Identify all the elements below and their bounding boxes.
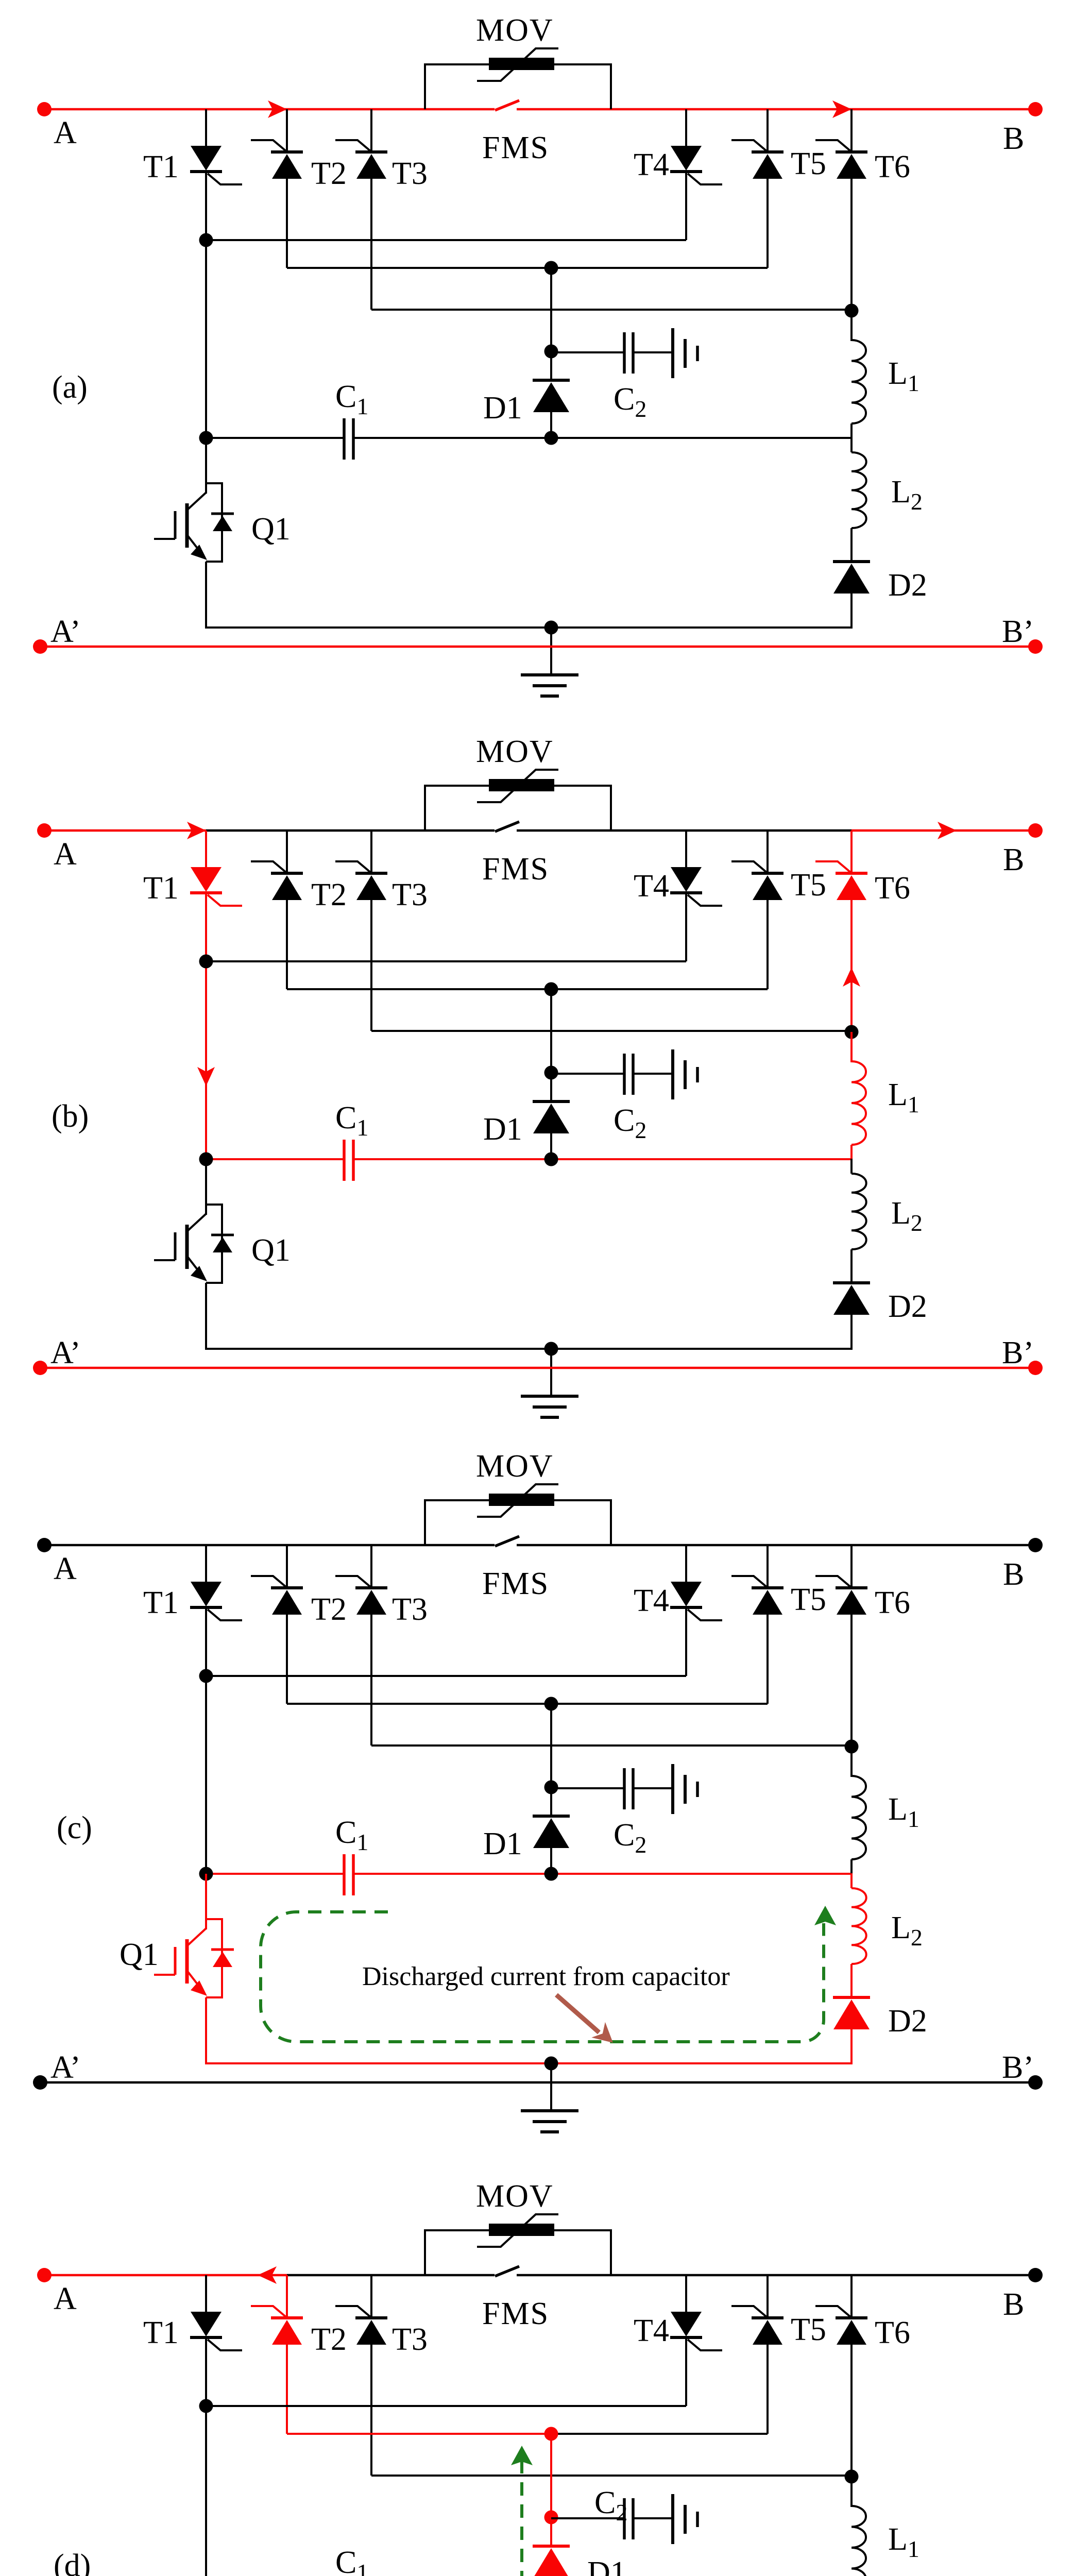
node T1-T4 junction [199,233,213,247]
svg-text:C2: C2 [614,1103,646,1143]
wire T6 top [850,109,853,152]
wire T3-T6 link [371,1744,851,1747]
node D1 anode / C1 junction [544,431,558,445]
wire L1-L2 link lower [850,1873,853,1888]
svg-text:(c): (c) [57,1810,92,1845]
svg-text:T3: T3 [392,877,428,912]
svg-text:C2: C2 [614,1818,646,1858]
panel (c) [33,1449,1043,2132]
wire C1 line left [206,437,344,439]
wire C1 line right [551,1873,851,1875]
wire T1 cathode down to C1 node [205,893,207,1159]
wire bottom inner right [551,1348,853,1350]
svg-text:B: B [1003,2287,1024,2322]
wire ground stem [550,1349,552,1396]
thyristor T2 [251,1576,303,1615]
wire L2 to D2 [850,1249,853,1283]
wire T1 anode [205,831,207,867]
thyristor T4 [670,146,722,184]
panel (b) [33,734,1043,1417]
wire T3 top [370,2275,372,2318]
thyristor T4 [670,867,722,906]
wire L1-L2 link lower [850,1159,853,1174]
regenerated current dashed path [522,2460,825,2576]
svg-text:B’: B’ [1002,2050,1034,2085]
svg-text:T5: T5 [791,1582,826,1617]
wire T3 bottom [370,900,372,1031]
svg-text:A: A [54,115,77,150]
switch FMS blade [495,822,519,832]
wire bottom bus B' right [551,1367,1035,1369]
svg-text:T1: T1 [143,149,179,184]
node center tap on T2-T5 link [544,2427,558,2441]
wire L1 top stub [850,2477,853,2507]
wire L2 to D2 [850,528,853,562]
svg-text:MOV: MOV [476,1449,554,1484]
wire T4 cathode [685,1607,687,1676]
wire center column to D1 [550,1704,552,1816]
wire L1 top stub [850,1032,853,1062]
wire T1 anode [205,1545,207,1582]
wire bottom inner left [205,1348,551,1350]
wire L1-L2 link upper [850,423,853,438]
wire L2 to D2 [850,1964,853,1997]
node center tap on T2-T5 link [544,982,558,996]
wire center column to D1 [550,989,552,1101]
svg-text:T4: T4 [634,147,669,182]
wire L1-L2 link upper [850,1145,853,1160]
node T1 column / C1 junction [199,1153,213,1166]
discharge current arrow head [814,1906,836,1925]
thyristor T3 [335,2306,387,2345]
node D1 cathode / C2 tap [544,1066,558,1080]
svg-text:C1: C1 [335,1815,368,1855]
wire T5 bottom [767,1615,769,1704]
wire top bus from T6 to B [851,2274,1035,2277]
node B terminal [1028,823,1043,838]
wire T6 bottom to L1 node [850,1615,853,1747]
node ground tap [544,1342,558,1356]
wire T4 cathode [685,893,687,961]
wire L1-L2 link lower [850,437,853,452]
regenerated current arrow head [511,2446,533,2465]
wire L1-L2 link upper [850,1859,853,1874]
inductor L1 [851,1061,866,1145]
inductor L2 [851,1888,866,1964]
svg-text:C1: C1 [335,2545,368,2576]
svg-text:T5: T5 [791,2312,826,2347]
wire L1 top stub [850,1747,853,1777]
thyristor T4 [670,2312,722,2350]
ground symbol [521,2111,578,2132]
varistor MOV [425,770,611,831]
inductor L1 [851,2506,866,2576]
wire top bus from T2 to FMS [287,1544,495,1547]
diode D2 [833,1283,870,1315]
thyristor T1 [190,146,242,184]
current arrow on bus pointing left [258,2266,277,2284]
wire T2-T5 link right [551,988,768,990]
wire T2 bottom [286,1615,288,1704]
wire bottom bus B' right [551,2081,1035,2084]
wire T6 top [850,2275,853,2318]
svg-text:L2: L2 [891,1196,923,1236]
wire T2 bottom [286,900,288,989]
wire C1 line middle [353,1873,551,1875]
svg-text:A: A [54,837,77,872]
capacitor C1 [344,1140,353,1181]
current arrow up on T6 branch [843,968,860,987]
wire bottom bus B' right [551,646,1035,648]
node D1 anode / C1 junction [544,1153,558,1166]
node center tap on T2-T5 link [544,1697,558,1711]
wire top bus from T6 to B [851,1544,1035,1547]
wire C1 line right [551,437,851,439]
svg-text:A’: A’ [50,614,81,649]
svg-text:T4: T4 [634,869,669,904]
wire T2-T5 link left [287,1703,551,1705]
svg-text:A’: A’ [50,1335,81,1370]
wire T6 bottom to L1 node [850,2345,853,2477]
thyristor T1 [190,1582,242,1620]
node D1 anode / C1 junction [544,1867,558,1881]
wire D2 anode down [850,1315,853,1350]
wire T5 bottom [767,2345,769,2434]
wire top bus from T6 to B [851,108,1035,111]
capacitor C2 [624,1764,697,1814]
wire T2 top [286,1545,288,1588]
node A' terminal [33,1361,47,1375]
svg-text:T6: T6 [875,149,910,184]
wire top bus from T6 to B [851,829,1035,832]
svg-text:T1: T1 [143,871,179,906]
wire T4 anode [685,831,687,867]
svg-text:L2: L2 [891,1910,923,1951]
svg-text:T2: T2 [311,877,347,912]
node T1-T4 junction [199,955,213,969]
switch FMS blade [495,1536,519,1546]
varistor MOV [425,48,611,109]
ground symbol [521,1396,578,1417]
svg-text:(b): (b) [52,1099,89,1134]
node A terminal [37,823,52,838]
svg-text:D2: D2 [888,1289,927,1324]
wire C1 line left [206,1158,344,1160]
wire T5 top [767,109,769,152]
wire T5 top [767,831,769,873]
svg-text:(a): (a) [52,370,88,405]
wire C1 line middle [353,437,551,439]
wire T1 column to Q1 collector [205,1159,207,1215]
svg-text:B: B [1003,842,1024,877]
transistor Q1 (IGBT) [154,1919,234,1997]
wire top bus from T1 to T2 [206,829,287,832]
transistor Q1 (IGBT) [154,1205,234,1283]
wire T2 top [286,2275,288,2318]
node ground tap [544,2057,558,2071]
wire T2-T5 link left [287,267,551,269]
wire T1-T4 link [206,960,686,962]
svg-text:B’: B’ [1002,614,1034,649]
inductor L2 [851,452,866,528]
thyristor T6 [815,861,867,900]
node A terminal [37,102,52,116]
thyristor T4 [670,1582,722,1620]
thyristor T5 [731,1576,784,1615]
svg-text:Q1: Q1 [251,1233,291,1268]
wire top bus from T2 to FMS [287,2274,495,2277]
node B terminal [1028,102,1043,116]
wire T5 top [767,2275,769,2318]
wire top bus from FMS to T6 [517,108,851,111]
wire center column to D1 [550,2434,552,2546]
wire top bus from T1 to T2 [206,1544,287,1547]
node A' terminal [33,639,47,654]
svg-text:A: A [54,1551,77,1586]
wire top bus from A to T1 [44,1544,206,1547]
wire Q1 emitter down [205,1997,207,2064]
wire T6 bottom to L1 node [850,900,853,1032]
svg-text:T1: T1 [143,1585,179,1620]
node B terminal [1028,2268,1043,2282]
wire T6 top [850,831,853,873]
svg-text:L1: L1 [888,356,919,396]
wire T4 anode [685,1545,687,1582]
svg-text:C1: C1 [335,1100,368,1141]
wire top bus from A to T1 [44,108,206,111]
wire center column to D1 [550,268,552,380]
wire ground stem [550,628,552,675]
wire T6 bottom to L1 node [850,179,853,311]
wire T4 anode [685,109,687,146]
varistor MOV [425,2214,611,2275]
wire T5 bottom [767,900,769,989]
wire L1 top stub [850,311,853,341]
node B' terminal [1028,2075,1043,2090]
wire Q1 emitter down [205,562,207,629]
wire T2-T5 link left [287,988,551,990]
svg-text:D1: D1 [483,1826,522,1861]
svg-text:D1: D1 [587,2555,626,2576]
svg-text:C2: C2 [594,2485,627,2526]
wire Q1 emitter down [205,1283,207,1350]
panel (a) [33,13,1043,696]
node D1 cathode / C2 tap [544,2511,558,2524]
capacitor C2 [624,1049,697,1099]
wire T2-T5 link right [551,1703,768,1705]
svg-text:T4: T4 [634,2313,669,2348]
svg-text:L2: L2 [891,474,923,515]
svg-text:T6: T6 [875,1585,910,1620]
svg-text:FMS: FMS [482,2296,549,2331]
svg-text:C2: C2 [614,382,646,422]
node A terminal [37,1538,52,1552]
thyristor T1 [190,867,242,906]
switch FMS blade [495,2266,519,2276]
wire D1 anode [550,1848,552,1875]
svg-text:T6: T6 [875,871,910,906]
wire C1 line middle [353,1158,551,1160]
wire top bus from A to T1 [44,829,206,832]
ground symbol [521,675,578,696]
node center tap on T2-T5 link [544,261,558,275]
wire D2 anode down [850,2029,853,2064]
svg-text:T3: T3 [392,156,428,191]
wire T2-T5 link left [287,2433,551,2435]
node T6 junction [845,1025,859,1039]
wire T3 bottom [370,1615,372,1745]
diode D1 [533,380,570,412]
svg-text:T4: T4 [634,1583,669,1618]
svg-text:D2: D2 [888,2004,927,2039]
wire T3-T6 link [371,309,851,311]
svg-text:C1: C1 [335,379,368,419]
wire T3-T6 link [371,1030,851,1032]
wire top bus from T1 to T2 [206,108,287,111]
wire T4 cathode [685,172,687,240]
wire T2 top [286,831,288,873]
wire bottom bus A' left [40,646,551,648]
svg-text:T5: T5 [791,146,826,181]
wire T1-T4 link [206,239,686,241]
discharge current dashed loop [261,1912,824,2042]
svg-text:L1: L1 [888,1077,919,1117]
capacitor C2 [624,2494,697,2544]
svg-text:MOV: MOV [476,734,554,769]
svg-text:T2: T2 [311,156,347,191]
wire T5 top [767,1545,769,1588]
node T1 column / C1 junction [199,431,213,445]
svg-text:B: B [1003,121,1024,156]
svg-text:A’: A’ [50,2050,81,2085]
capacitor C1 [344,1854,353,1895]
wire ground stem [550,2063,552,2111]
wire top bus from FMS to T6 [517,829,851,832]
diode D1 [533,1816,570,1848]
thyristor T2 [251,2306,303,2345]
current arrow on bus left [268,100,287,118]
wire T1 anode [205,2275,207,2312]
node D1 cathode / C2 tap [544,345,558,359]
thyristor T6 [815,140,867,179]
current arrow down on T1 branch [197,1067,215,1086]
wire T3 bottom [370,179,372,310]
inductor L2 [851,1174,866,1249]
svg-text:T1: T1 [143,2315,179,2350]
wire T2 bottom [286,2345,288,2434]
diode D1 [533,1101,570,1133]
wire T1 cathode down to C1 node [205,1607,207,1874]
wire T1 cathode down to C1 node [205,172,207,438]
wire C2 branch [551,1073,624,1075]
current arrow on bus left [187,822,206,839]
wire T2 bottom [286,179,288,268]
wire T1-T4 link [206,2405,686,2407]
thyristor T3 [335,861,387,900]
diode D2 [833,562,870,594]
svg-text:MOV: MOV [476,13,554,48]
wire T1 column to Q1 collector [205,1874,207,1929]
node A terminal [37,2268,52,2282]
wire T1-T4 link [206,1675,686,1677]
wire top bus from T1 to T2 [206,2274,287,2277]
wire C2 branch [551,2517,624,2519]
wire T3 top [370,1545,372,1588]
svg-text:D2: D2 [888,568,927,603]
wire T2-T5 link right [551,2433,768,2435]
wire bottom bus A' left [40,2081,551,2084]
svg-text:T2: T2 [311,2322,347,2357]
node B terminal [1028,1538,1043,1552]
thyristor T3 [335,140,387,179]
wire top bus from FMS to T6 [517,1544,851,1547]
wire T2 top [286,109,288,152]
wire C1 line right [551,1158,851,1160]
node T1 column / C1 junction [199,1867,213,1881]
wire C1 line left [206,1873,344,1875]
wire T1 anode [205,109,207,146]
inductor L1 [851,340,866,423]
svg-text:T2: T2 [311,1592,347,1627]
svg-text:Q1: Q1 [251,512,291,547]
wire T1 column to Q1 collector [205,438,207,494]
thyristor T6 [815,2306,867,2345]
node B' terminal [1028,1361,1043,1375]
node T1-T4 junction [199,2399,213,2413]
wire C2 branch [551,351,624,353]
transistor Q1 (IGBT) [154,483,234,562]
wire bottom inner left [205,2062,551,2064]
wire bottom inner left [205,626,551,629]
node T6 junction [845,304,859,318]
svg-text:MOV: MOV [476,2179,554,2214]
wire bottom bus A' left [40,1367,551,1369]
svg-text:A: A [54,2281,77,2316]
wire bottom inner right [551,626,853,629]
thyristor T1 [190,2312,242,2350]
switch FMS blade [495,100,519,110]
svg-text:L1: L1 [888,2522,919,2562]
wire D1 anode [550,1133,552,1160]
svg-text:FMS: FMS [482,852,549,887]
thyristor T5 [731,2306,784,2345]
thyristor T5 [731,861,784,900]
wire D1 anode [550,412,552,439]
node T6 junction [845,1740,859,1754]
thyristor T2 [251,140,303,179]
node D1 cathode / C2 tap [544,1781,558,1794]
svg-text:FMS: FMS [482,1566,549,1601]
varistor MOV [425,1484,611,1545]
inductor L1 [851,1776,866,1859]
thyristor T6 [815,1576,867,1615]
svg-text:T3: T3 [392,2322,428,2357]
wire T4 anode [685,2275,687,2312]
capacitor C1 [344,418,353,460]
svg-text:Q1: Q1 [120,1937,159,1972]
node T1-T4 junction [199,1669,213,1683]
wire C2 branch [551,1787,624,1789]
svg-text:(d): (d) [54,2548,91,2576]
current arrow on bus right [938,822,957,839]
wire T3-T6 link [371,2475,851,2477]
wire bottom inner right [551,2062,853,2064]
wire T2-T5 link right [551,267,768,269]
wire D2 anode down [850,594,853,629]
panel (d) [33,2179,1043,2576]
capacitor C2 [624,328,697,378]
wire T5 bottom [767,179,769,268]
